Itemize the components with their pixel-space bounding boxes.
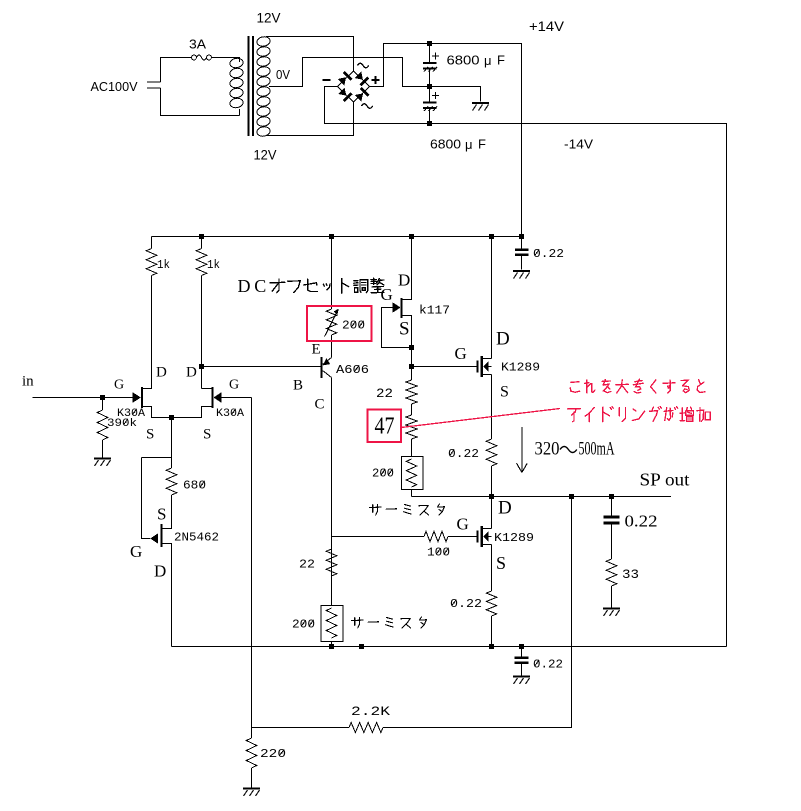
svg-text:in: in [22, 373, 34, 389]
svg-text:K1289: K1289 [501, 361, 540, 375]
svg-text:0V: 0V [276, 67, 290, 82]
svg-text:AC100V: AC100V [91, 79, 138, 94]
svg-text:2.2K: 2.2K [351, 704, 390, 719]
svg-text:6800: 6800 [430, 136, 461, 151]
svg-text:3A: 3A [189, 36, 206, 51]
svg-text:C: C [315, 396, 325, 412]
svg-text:S: S [399, 319, 410, 340]
svg-text:μ: μ [484, 53, 492, 68]
svg-text:C: C [254, 276, 266, 296]
svg-text:D: D [154, 562, 166, 581]
svg-text:B: B [293, 377, 303, 393]
svg-text:D: D [496, 329, 510, 350]
svg-text:12V: 12V [257, 10, 282, 26]
svg-text:6800: 6800 [447, 52, 480, 67]
svg-text:G: G [114, 378, 124, 393]
svg-text:1k: 1k [207, 258, 220, 272]
svg-text:μ: μ [465, 137, 473, 152]
svg-text:S: S [203, 426, 211, 442]
svg-text:D: D [186, 364, 197, 380]
svg-text:F: F [478, 136, 486, 151]
svg-text:D: D [156, 364, 167, 380]
svg-text:D: D [398, 271, 410, 290]
svg-text:A606: A606 [336, 363, 369, 377]
svg-text:500mA: 500mA [579, 439, 615, 460]
svg-text:0.22: 0.22 [448, 447, 479, 461]
svg-text:0.22: 0.22 [533, 247, 564, 261]
svg-text:0.22: 0.22 [533, 658, 563, 672]
svg-text:F: F [497, 52, 505, 67]
svg-text:22: 22 [376, 386, 393, 401]
svg-text:G: G [455, 344, 467, 363]
svg-text:G: G [130, 542, 142, 561]
svg-text:0.22: 0.22 [450, 597, 482, 611]
svg-text:k117: k117 [419, 304, 450, 318]
svg-text:22: 22 [299, 558, 315, 572]
svg-text:680: 680 [183, 479, 206, 493]
svg-text:47: 47 [375, 413, 395, 439]
svg-text:G: G [229, 378, 239, 393]
svg-text:1k: 1k [157, 258, 170, 272]
svg-text:320: 320 [535, 439, 560, 460]
svg-text:200: 200 [292, 618, 315, 632]
svg-text:S: S [496, 553, 506, 573]
svg-text:33: 33 [622, 567, 639, 582]
svg-text:S: S [146, 426, 154, 442]
svg-text:SP out: SP out [640, 470, 690, 490]
svg-text:390k: 390k [107, 418, 137, 430]
svg-text:D: D [498, 498, 512, 519]
svg-text:12V: 12V [254, 147, 278, 163]
svg-text:2N5462: 2N5462 [174, 531, 219, 545]
svg-text:200: 200 [372, 467, 394, 481]
svg-text:-14V: -14V [564, 136, 593, 151]
svg-text:D: D [238, 276, 251, 296]
svg-text:200: 200 [342, 319, 365, 333]
svg-text:+14V: +14V [529, 18, 565, 34]
svg-text:G: G [457, 515, 469, 534]
svg-text:S: S [500, 384, 509, 401]
svg-text:100: 100 [427, 546, 450, 560]
svg-text:K1289: K1289 [494, 531, 534, 545]
svg-text:K30A: K30A [216, 408, 244, 420]
svg-text:E: E [312, 341, 321, 357]
svg-text:0.22: 0.22 [625, 512, 658, 531]
svg-text:220: 220 [260, 747, 286, 761]
svg-text:S: S [157, 505, 166, 524]
svg-text:G: G [381, 285, 393, 304]
